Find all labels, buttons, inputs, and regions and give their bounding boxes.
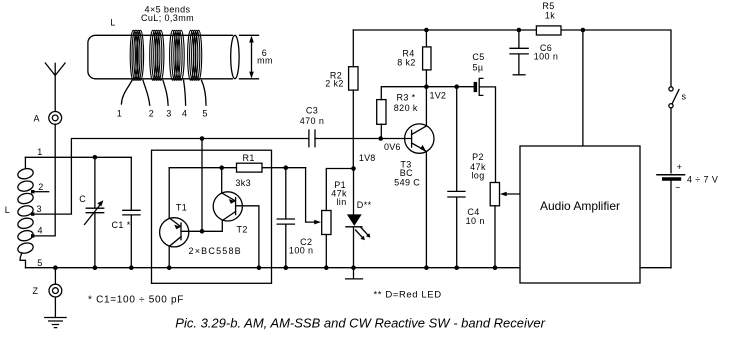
- svg-text:4 ÷ 7 V: 4 ÷ 7 V: [687, 174, 718, 184]
- wire C3 to T3 base: [315, 138, 412, 140]
- potentiometer P2: [490, 183, 499, 206]
- wire node 1V2 to C5 and C4: [426, 86, 473, 88]
- svg-text:5: 5: [202, 109, 207, 119]
- wire R3 bottom to T3 base line: [380, 124, 382, 138]
- resistor R4: [423, 47, 431, 70]
- svg-text:C5: C5: [472, 52, 484, 62]
- wire T1 base / T2 collector node: [181, 221, 222, 232]
- svg-text:CuL; 0,3mm: CuL; 0,3mm: [141, 13, 194, 23]
- svg-text:4: 4: [182, 109, 187, 119]
- wire T1 emitter to R1 line: [168, 168, 170, 218]
- switch s: [669, 87, 679, 108]
- wire input from C3 line into box: [201, 139, 203, 232]
- ground bar at node 1V8 column: [346, 268, 363, 279]
- svg-text:C3: C3: [306, 105, 318, 115]
- svg-text:3: 3: [36, 204, 41, 214]
- wire R4 bottom to node 1V2: [425, 70, 427, 87]
- svg-text:2 k2: 2 k2: [325, 79, 344, 89]
- capacitor C4: [448, 191, 465, 267]
- coil form cylinder (construction drawing of L): [88, 35, 239, 79]
- resistor R5: [536, 26, 561, 35]
- svg-text:T1: T1: [176, 202, 187, 212]
- wire node 1V8 vertical to LED: [353, 169, 355, 215]
- resistor R2: [349, 67, 358, 90]
- svg-text:C1 *: C1 *: [112, 220, 131, 230]
- svg-text:** D=Red LED: ** D=Red LED: [374, 290, 442, 301]
- tap lead 5 of coil drawing: [202, 80, 207, 105]
- wire wiper feed to P1: [306, 168, 317, 222]
- coil tap square 2: [31, 190, 34, 193]
- wire R3 top to node 1V2: [381, 87, 426, 100]
- svg-text:log: log: [471, 170, 484, 180]
- wire tap 3 to C3 line: [35, 139, 309, 215]
- wire R1 line (emitters to wiper feed): [169, 167, 305, 169]
- wire LED cathode to ground rail: [353, 227, 355, 268]
- svg-text:1k: 1k: [545, 10, 555, 20]
- svg-text:Z: Z: [32, 286, 38, 296]
- svg-text:R1: R1: [242, 153, 254, 163]
- capacitor C2: [277, 168, 294, 268]
- svg-text:1: 1: [37, 147, 42, 157]
- variable capacitor C: [85, 157, 104, 267]
- svg-text:820 k: 820 k: [394, 103, 418, 113]
- tap lead 1 of coil drawing: [121, 80, 132, 104]
- tap lead 2 of coil drawing: [143, 80, 150, 105]
- arrowhead into P2 wiper: [500, 192, 507, 197]
- svg-text:−: −: [675, 182, 681, 192]
- ground rail (bottom): [26, 267, 521, 269]
- resistor R1: [237, 163, 263, 172]
- svg-text:2: 2: [38, 182, 43, 192]
- inductor L (tuning coil): [17, 157, 35, 267]
- wire switch to battery: [670, 108, 672, 173]
- svg-text:Audio Amplifier: Audio Amplifier: [540, 199, 620, 213]
- svg-text:T2: T2: [236, 224, 247, 234]
- detector block box (T1/T2): [152, 150, 272, 283]
- svg-text:470 n: 470 n: [300, 116, 325, 126]
- wire T2 base to ground rail: [236, 206, 259, 268]
- svg-text:2: 2: [149, 109, 154, 119]
- svg-text:100 n: 100 n: [534, 52, 559, 62]
- wire P1 bottom to ground rail: [325, 235, 327, 268]
- antenna: [45, 63, 65, 111]
- svg-text:1V8: 1V8: [359, 153, 376, 163]
- svg-text:BC: BC: [400, 168, 413, 178]
- wire T3 collector to node 1V2: [425, 87, 427, 126]
- svg-text:A: A: [33, 114, 39, 124]
- arrowhead into P1 wiper: [314, 220, 321, 225]
- potentiometer P1: [322, 211, 331, 235]
- svg-text:5µ: 5µ: [473, 63, 484, 73]
- wire P2 bottom to ground rail: [494, 206, 496, 268]
- capacitor C6: [510, 30, 528, 75]
- tap lead 4 of coil drawing: [184, 80, 186, 105]
- resistor R3: [377, 100, 386, 125]
- winding group 1 on coil form: [130, 30, 143, 80]
- wire R2 top to supply rail: [352, 30, 354, 67]
- wire T1 collector to ground rail: [168, 246, 170, 267]
- svg-text:L: L: [110, 18, 115, 28]
- winding group 2 on coil form: [150, 30, 164, 80]
- transistor T3: [405, 124, 434, 153]
- svg-text:100 n: 100 n: [289, 245, 314, 255]
- svg-text:lin: lin: [336, 197, 346, 207]
- svg-text:2×BC558B: 2×BC558B: [189, 246, 242, 256]
- svg-text:s: s: [682, 91, 687, 101]
- wire antenna to coil tap 4: [35, 124, 56, 236]
- svg-text:mm: mm: [257, 56, 273, 66]
- winding group 4 on coil form: [188, 30, 202, 80]
- svg-text:10 n: 10 n: [466, 216, 485, 226]
- svg-text:0V6: 0V6: [384, 142, 401, 152]
- wire C5 to P2 top: [480, 87, 496, 183]
- svg-text:* C1=100 ÷ 500 pF: * C1=100 ÷ 500 pF: [88, 295, 184, 306]
- capacitor C1: [123, 157, 140, 267]
- battery 4-7V: [657, 175, 685, 268]
- wire P1 top to node 1V8: [326, 169, 353, 211]
- svg-text:8 k2: 8 k2: [397, 58, 416, 68]
- terminal Z: [49, 268, 62, 318]
- Audio Amplifier box: [520, 146, 640, 283]
- coil tap square 4: [31, 234, 34, 237]
- svg-text:Pic. 3.29-b. AM, AM-SSB and CW: Pic. 3.29-b. AM, AM-SSB and CW Reactive …: [175, 316, 545, 331]
- svg-text:R3 *: R3 *: [396, 92, 415, 102]
- coil tap square 3: [31, 212, 34, 215]
- wire supply to audio amplifier: [582, 30, 584, 146]
- svg-text:P2: P2: [472, 152, 484, 162]
- svg-text:549 C: 549 C: [394, 178, 420, 188]
- ground symbol: [45, 318, 66, 328]
- svg-text:C: C: [79, 194, 86, 204]
- svg-text:3k3: 3k3: [235, 178, 251, 188]
- capacitor C5 (electrolytic): [474, 78, 483, 95]
- transistor T2: [213, 192, 242, 221]
- transistor T1: [160, 218, 189, 247]
- wire R2 bottom to node 1V8: [352, 90, 354, 168]
- svg-text:4: 4: [37, 226, 42, 236]
- LED D: [346, 214, 370, 240]
- dimension arrow 6mm: [240, 35, 259, 79]
- supply rail (top): [353, 30, 671, 87]
- winding group 3 on coil form: [170, 30, 185, 80]
- svg-text:+: +: [677, 162, 683, 172]
- wire R4 top to supply rail: [425, 30, 427, 47]
- wire T2 emitter to R1 line: [221, 168, 223, 193]
- svg-text:L: L: [5, 205, 10, 215]
- wire P2 wiper to amplifier input: [504, 193, 520, 195]
- svg-text:D**: D**: [357, 200, 372, 210]
- svg-text:5: 5: [37, 258, 42, 268]
- wire tap 2 stub: [35, 191, 49, 193]
- terminal A: [49, 112, 62, 125]
- wire T3 emitter to ground rail: [425, 152, 427, 268]
- capacitor C3: [309, 130, 315, 147]
- svg-text:1: 1: [117, 109, 122, 119]
- svg-text:1V2: 1V2: [430, 91, 447, 101]
- svg-text:3: 3: [166, 109, 171, 119]
- tap lead 3 of coil drawing: [163, 80, 168, 105]
- wire coil top line 1: [25, 156, 131, 158]
- wire 1V2 down to C4: [456, 87, 458, 192]
- wire battery minus to ground rail: [640, 267, 671, 269]
